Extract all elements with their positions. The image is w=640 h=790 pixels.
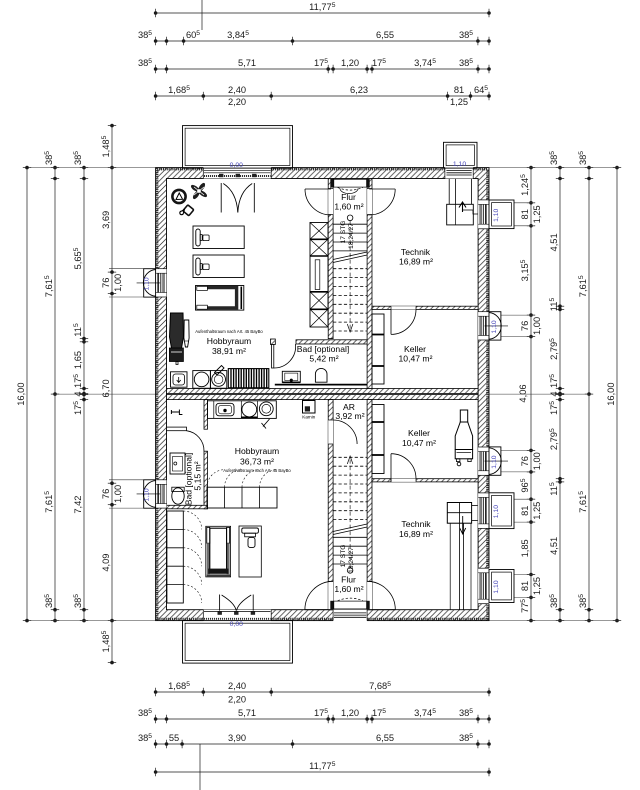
svg-text:7,42: 7,42 [73,496,83,514]
svg-text:81: 81 [520,506,530,516]
svg-text:Technik: Technik [401,519,431,529]
svg-text:1,60 m²: 1,60 m² [334,584,363,594]
svg-text:1,25: 1,25 [532,577,542,595]
svg-text:76: 76 [101,278,111,288]
svg-text:4,51: 4,51 [549,233,559,251]
svg-text:1,65: 1,65 [73,351,83,369]
svg-text:1,00: 1,00 [532,452,542,470]
svg-text:Hobbyraum: Hobbyraum [235,446,279,456]
svg-text:3,92 m²: 3,92 m² [335,411,364,421]
svg-text:2,20: 2,20 [228,695,246,705]
svg-text:81: 81 [520,581,530,591]
svg-text:10,47 m²: 10,47 m² [402,438,436,448]
svg-text:17 STG: 17 STG [340,221,347,244]
svg-text:1,00: 1,00 [113,485,123,503]
svg-text:16,00: 16,00 [16,382,26,405]
svg-text:5,42 m²: 5,42 m² [309,354,338,364]
svg-text:1,10: 1,10 [491,455,498,468]
svg-text:6,70: 6,70 [101,379,111,397]
svg-text:1,20: 1,20 [341,58,359,68]
svg-text:1,60 m²: 1,60 m² [334,202,363,212]
svg-text:16,00: 16,00 [606,382,616,405]
svg-text:1,25: 1,25 [532,502,542,520]
svg-text:81: 81 [520,209,530,219]
svg-text:17 STG: 17 STG [340,545,347,568]
svg-text:1,20: 1,20 [341,708,359,718]
svg-text:1,10: 1,10 [144,488,151,501]
svg-text:1,10: 1,10 [491,320,498,333]
svg-text:6,23: 6,23 [350,85,368,95]
svg-text:18,24/27: 18,24/27 [348,547,355,573]
svg-text:3,69: 3,69 [101,211,111,229]
svg-text:Keller: Keller [408,428,430,438]
svg-text:5,71: 5,71 [238,58,256,68]
svg-text:55: 55 [169,733,179,743]
svg-text:Bad [optional]: Bad [optional] [297,344,350,354]
svg-text:Kamin: Kamin [302,415,315,420]
svg-text:1,10: 1,10 [493,580,500,593]
svg-text:Aufenthaltsraum nach Art. 45 B: Aufenthaltsraum nach Art. 45 BayBo [223,468,291,473]
svg-text:1,00: 1,00 [532,317,542,335]
svg-text:38,91 m²: 38,91 m² [212,346,246,356]
svg-text:4,09: 4,09 [101,554,111,572]
svg-text:6,55: 6,55 [376,733,394,743]
svg-text:2,20: 2,20 [228,97,246,107]
svg-text:16,89 m²: 16,89 m² [399,257,433,267]
svg-text:81: 81 [454,85,464,95]
svg-text:16,89 m²: 16,89 m² [399,529,433,539]
svg-text:3,90: 3,90 [228,733,246,743]
svg-text:18,24/27: 18,24/27 [348,223,355,249]
svg-text:4,51: 4,51 [549,537,559,555]
svg-text:1,10: 1,10 [493,208,500,221]
svg-text:Hobbyraum: Hobbyraum [207,336,251,346]
svg-text:10,47 m²: 10,47 m² [399,354,433,364]
svg-text:1,85: 1,85 [520,539,530,557]
svg-text:1,10: 1,10 [453,161,466,168]
svg-text:0,00: 0,00 [230,162,243,169]
svg-text:36,73 m²: 36,73 m² [240,457,274,467]
svg-text:Aufenthaltsraum nach Art. 45 B: Aufenthaltsraum nach Art. 45 BayBo [195,329,263,334]
svg-text:76: 76 [101,489,111,499]
svg-text:76: 76 [520,456,530,466]
svg-text:1,25: 1,25 [532,205,542,223]
svg-text:1,10: 1,10 [493,505,500,518]
svg-text:Flur: Flur [341,575,356,585]
svg-text:Technik: Technik [401,247,431,257]
svg-text:1,25: 1,25 [450,97,468,107]
svg-text:1,00: 1,00 [113,274,123,292]
svg-text:0,00: 0,00 [230,621,243,628]
svg-text:5,71: 5,71 [238,708,256,718]
svg-text:5,15 m²: 5,15 m² [193,461,203,490]
svg-text:2,40: 2,40 [228,681,246,691]
svg-text:Keller: Keller [404,344,426,354]
svg-text:2,40: 2,40 [228,85,246,95]
svg-text:4,06: 4,06 [518,384,528,402]
svg-text:Flur: Flur [341,192,356,202]
svg-text:76: 76 [520,321,530,331]
svg-text:6,55: 6,55 [376,30,394,40]
svg-text:1,10: 1,10 [144,277,151,290]
